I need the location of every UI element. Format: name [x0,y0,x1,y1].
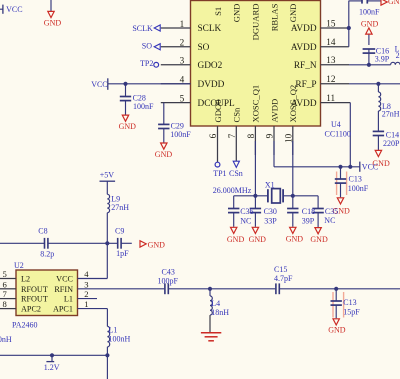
svg-text:GND: GND [249,235,267,244]
svg-text:100nF: 100nF [170,130,191,139]
svg-text:1: 1 [84,299,88,309]
svg-text:TP1: TP1 [213,169,226,178]
svg-text:GND: GND [155,150,173,159]
svg-text:L1: L1 [64,295,73,304]
svg-text:RF_P: RF_P [295,80,316,90]
svg-text:220P: 220P [383,139,400,148]
svg-text:8.2p: 8.2p [40,250,54,259]
svg-text:27nH: 27nH [382,110,400,119]
svg-text:1pF: 1pF [116,249,129,258]
svg-text:GND: GND [119,122,137,131]
svg-text:100nF: 100nF [348,184,369,193]
svg-text:C13: C13 [343,298,356,307]
svg-text:NC: NC [240,217,251,226]
svg-text:C18: C18 [302,207,315,216]
svg-text:DVDD: DVDD [198,80,225,90]
svg-text:L1: L1 [109,325,118,334]
svg-text:APC1: APC1 [53,305,73,314]
svg-text:+5V: +5V [100,171,115,180]
svg-text:RBLAS: RBLAS [269,3,279,31]
svg-text:X1: X1 [265,180,275,189]
svg-text:C15: C15 [274,265,287,274]
svg-text:4.7pF: 4.7pF [274,274,293,283]
svg-text:APC2: APC2 [21,305,41,314]
svg-text:GND: GND [328,326,346,335]
svg-text:26.000MHz: 26.000MHz [213,186,252,195]
svg-text:GND: GND [44,18,62,27]
svg-text:XOSC_Q1: XOSC_Q1 [251,85,261,123]
svg-text:13: 13 [326,55,336,65]
svg-text:RF_N: RF_N [294,61,317,71]
svg-text:CSn: CSn [232,107,242,123]
svg-text:6: 6 [208,133,218,138]
svg-text:U2: U2 [14,261,24,270]
svg-text:TP2: TP2 [140,59,153,68]
svg-text:8: 8 [3,299,7,309]
svg-text:7: 7 [227,133,237,138]
svg-text:C36: C36 [240,207,253,216]
svg-text:3.9P: 3.9P [375,55,390,64]
svg-text:C8: C8 [38,227,47,236]
svg-text:00nH: 00nH [0,335,12,344]
svg-text:XOSC_Q2: XOSC_Q2 [288,85,298,123]
svg-text:100nF: 100nF [359,7,380,16]
svg-text:GND: GND [361,20,379,29]
svg-text:C43: C43 [162,268,175,277]
svg-text:C30: C30 [264,207,277,216]
svg-text:SCLK: SCLK [198,24,222,34]
svg-text:6: 6 [3,279,8,289]
svg-text:15: 15 [326,18,336,28]
svg-text:GND: GND [232,4,242,23]
svg-text:CSn: CSn [229,169,243,178]
svg-text:L2: L2 [21,275,30,284]
svg-text:SCLK: SCLK [132,24,153,33]
svg-text:VCC: VCC [362,163,378,172]
svg-text:8: 8 [246,133,256,138]
svg-text:11: 11 [326,93,335,103]
svg-text:12: 12 [326,74,336,84]
svg-text:10: 10 [284,133,294,143]
svg-text:3: 3 [84,279,88,289]
svg-text:SO: SO [142,41,152,50]
svg-text:AVDD: AVDD [291,24,317,34]
svg-text:GND: GND [148,241,166,250]
svg-text:9: 9 [265,133,275,138]
svg-text:PA2460: PA2460 [12,321,38,330]
svg-text:100pF: 100pF [158,277,179,286]
svg-text:C13: C13 [349,175,362,184]
svg-text:S1: S1 [213,7,223,16]
svg-text:GDO2: GDO2 [198,61,223,71]
svg-text:CC1100: CC1100 [325,130,351,139]
svg-text:SO: SO [198,43,210,53]
svg-text:C9: C9 [115,227,124,236]
svg-text:GND: GND [227,235,245,244]
svg-text:RFIN: RFIN [54,285,73,294]
svg-text:U4: U4 [331,120,341,129]
svg-text:33P: 33P [264,217,277,226]
svg-text:100nF: 100nF [133,102,154,111]
svg-text:RFOUT: RFOUT [21,285,48,294]
svg-text:DGUARD: DGUARD [251,4,261,41]
svg-text:4: 4 [180,75,185,85]
svg-text:GND: GND [288,4,298,23]
svg-text:39P: 39P [302,217,315,226]
svg-text:NC: NC [324,216,335,225]
svg-text:AVDD: AVDD [291,43,317,53]
svg-text:1.2V: 1.2V [44,363,60,372]
svg-text:2: 2 [84,289,88,299]
svg-text:GND: GND [310,235,328,244]
svg-text:VCC: VCC [91,80,107,89]
svg-text:GND: GND [388,0,400,6]
svg-text:RFOUT: RFOUT [21,295,48,304]
svg-text:5: 5 [3,269,7,279]
svg-text:5: 5 [180,93,185,103]
svg-text:1: 1 [180,19,185,29]
svg-text:14: 14 [326,37,336,47]
svg-text:2: 2 [180,38,185,48]
svg-text:VCC: VCC [6,5,22,14]
svg-text:7: 7 [3,289,8,299]
svg-text:100nH: 100nH [109,334,131,343]
svg-text:VCC: VCC [56,275,73,284]
svg-text:27nH: 27nH [396,51,400,60]
svg-text:GND: GND [286,235,304,244]
svg-text:4: 4 [84,269,89,279]
svg-text:GDO0: GDO0 [213,100,223,123]
svg-text:C35: C35 [325,207,338,216]
svg-text:AVDD: AVDD [269,99,279,123]
svg-text:15pF: 15pF [343,307,360,316]
svg-text:3: 3 [180,56,185,66]
svg-text:18nH: 18nH [211,308,229,317]
svg-text:27nH: 27nH [111,203,129,212]
svg-text:L4: L4 [211,299,220,308]
